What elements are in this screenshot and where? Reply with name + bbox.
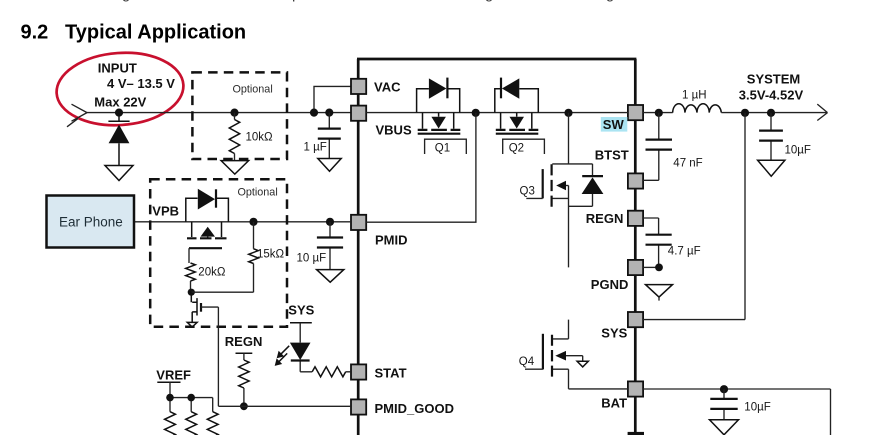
svg-text:20kΩ: 20kΩ bbox=[198, 266, 226, 278]
svg-text:VAC: VAC bbox=[374, 79, 401, 94]
svg-text:Q1: Q1 bbox=[435, 143, 450, 155]
svg-text:VPB: VPB bbox=[152, 204, 179, 219]
svg-text:47 nF: 47 nF bbox=[673, 157, 702, 169]
svg-text:10µF: 10µF bbox=[785, 144, 811, 156]
svg-text:Optional: Optional bbox=[233, 84, 273, 96]
svg-text:10 µF: 10 µF bbox=[297, 252, 327, 264]
svg-text:BTST: BTST bbox=[595, 147, 629, 162]
svg-text:REGN: REGN bbox=[225, 334, 263, 349]
svg-text:4.7 µF: 4.7 µF bbox=[668, 245, 701, 257]
svg-text:PMID: PMID bbox=[375, 233, 408, 248]
svg-text:g: g bbox=[606, 0, 614, 3]
svg-text:VREF: VREF bbox=[156, 367, 191, 382]
svg-text:p: p bbox=[292, 0, 300, 3]
svg-text:Ear Phone: Ear Phone bbox=[59, 214, 123, 229]
svg-text:BAT: BAT bbox=[601, 395, 627, 410]
svg-text:9.2: 9.2 bbox=[21, 22, 49, 44]
svg-text:Optional: Optional bbox=[238, 186, 278, 198]
svg-text:3.5V-4.52V: 3.5V-4.52V bbox=[739, 87, 804, 102]
svg-text:INPUT: INPUT bbox=[98, 61, 137, 76]
svg-text:PMID_GOOD: PMID_GOOD bbox=[375, 401, 454, 416]
svg-text:g: g bbox=[485, 0, 493, 3]
svg-text:STAT: STAT bbox=[375, 365, 407, 380]
svg-text:SYS: SYS bbox=[288, 302, 314, 317]
svg-text:Q2: Q2 bbox=[509, 143, 524, 155]
svg-text:REGN: REGN bbox=[586, 211, 624, 226]
svg-text:SW: SW bbox=[603, 117, 625, 132]
svg-text:Q4: Q4 bbox=[519, 356, 535, 368]
svg-text:VBUS: VBUS bbox=[376, 123, 412, 138]
svg-text:15kΩ: 15kΩ bbox=[257, 248, 285, 260]
svg-text:10µF: 10µF bbox=[744, 401, 770, 413]
svg-text:1 µF: 1 µF bbox=[304, 142, 327, 154]
svg-text:10kΩ: 10kΩ bbox=[246, 132, 274, 144]
svg-text:SYSTEM: SYSTEM bbox=[747, 71, 800, 86]
svg-text:Typical Application: Typical Application bbox=[65, 22, 246, 44]
svg-text:g: g bbox=[122, 0, 130, 3]
svg-text:PGND: PGND bbox=[591, 277, 629, 292]
svg-text:Q3: Q3 bbox=[520, 185, 535, 197]
svg-text:Max 22V: Max 22V bbox=[94, 95, 146, 110]
svg-text:4 V– 13.5 V: 4 V– 13.5 V bbox=[107, 76, 175, 91]
svg-text:1 µH: 1 µH bbox=[682, 89, 707, 101]
svg-text:SYS: SYS bbox=[601, 325, 627, 340]
